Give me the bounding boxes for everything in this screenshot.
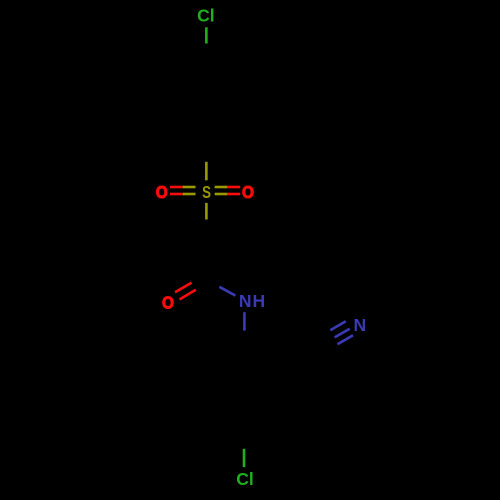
svg-text:O: O — [242, 183, 254, 202]
svg-text:O: O — [162, 293, 174, 312]
svg-text:NH: NH — [239, 291, 266, 311]
svg-text:S: S — [202, 183, 211, 202]
svg-text:Cl: Cl — [236, 469, 254, 489]
svg-text:N: N — [353, 315, 366, 335]
svg-text:O: O — [156, 183, 168, 202]
svg-text:Cl: Cl — [197, 6, 215, 26]
